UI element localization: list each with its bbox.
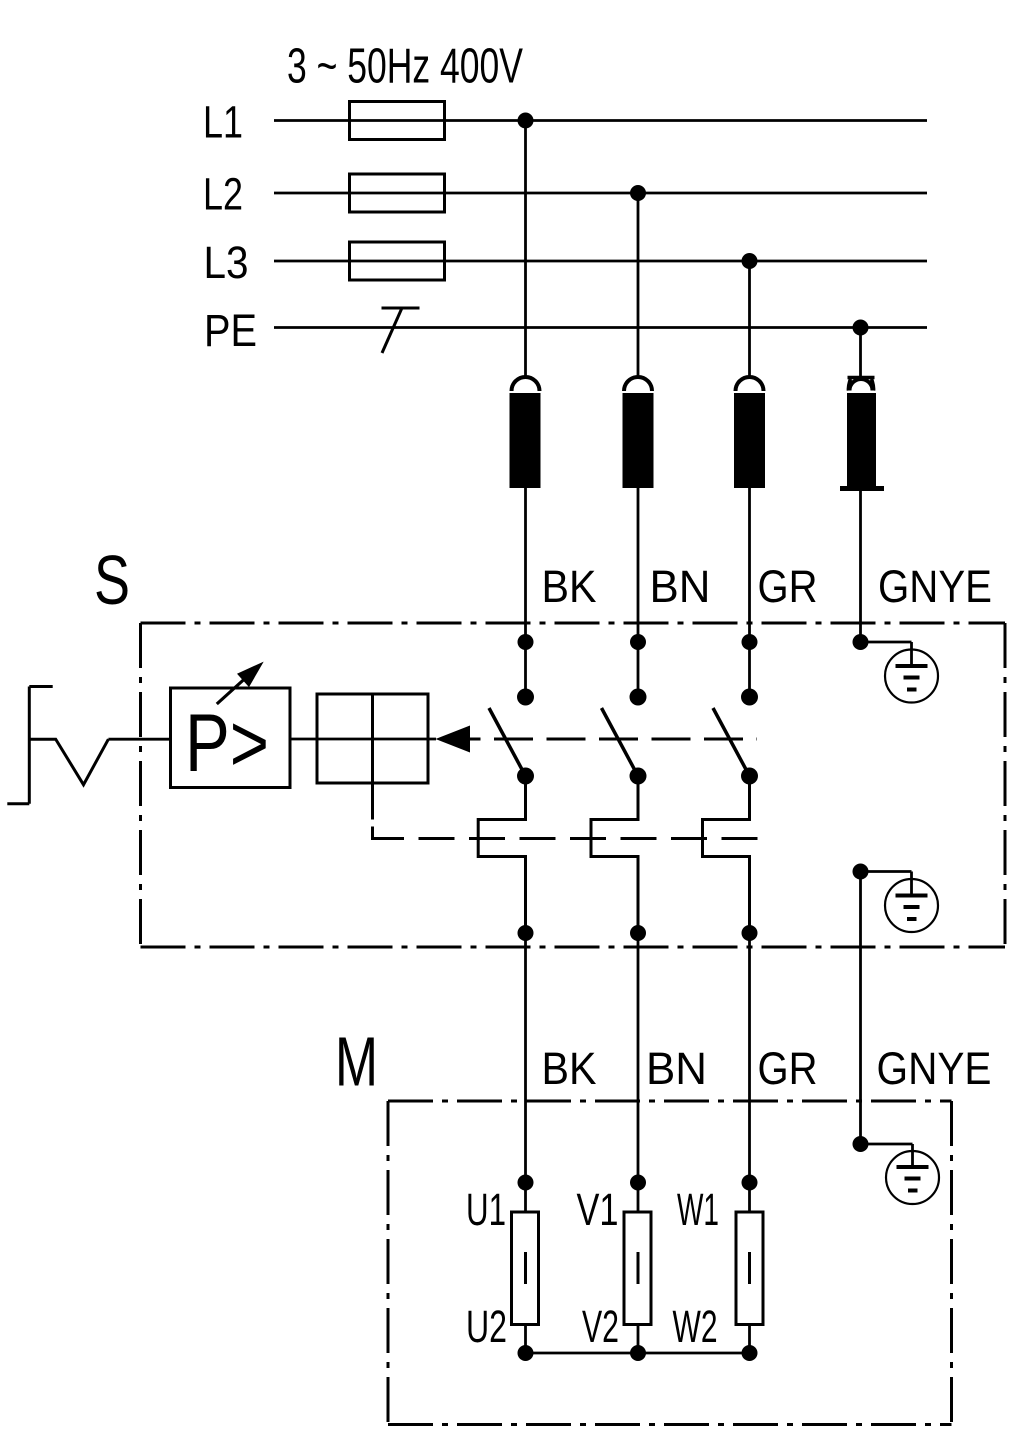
wire sensor to P> [108,738,170,741]
svg-text:3 ~ 50Hz 400V: 3 ~ 50Hz 400V [287,40,523,94]
node BK in [518,634,534,650]
svg-text:GR: GR [758,1043,818,1094]
wire PE [274,326,927,329]
overload element 2 [591,776,638,933]
node star 2 [630,1345,646,1361]
enclosure box M [388,1101,952,1425]
PE earth tap symbol [382,308,420,353]
switch blade 3 [713,708,750,776]
svg-text:BK: BK [542,1043,597,1094]
wire BK to contact [524,642,527,697]
node contact2 bottom [630,768,647,785]
wire drop BK [524,121,527,380]
converter cross box [290,694,436,783]
node star 3 [742,1345,758,1361]
svg-text:L2: L2 [203,169,243,220]
svg-text:GNYE: GNYE [877,1043,992,1094]
wire phase 2 S to M [637,933,640,1183]
overload element 3 [703,776,750,933]
node L1 junction [518,113,534,129]
wire phase 1 S to M [524,933,527,1183]
ground symbol E3 [861,1144,940,1204]
ground symbol E1 [861,642,939,703]
node S out 3 [742,925,758,941]
svg-text:PE: PE [204,305,257,356]
node contact3 top [741,689,758,706]
node contact1 bottom [517,768,534,785]
node S out 1 [518,925,534,941]
overload element 1 [478,776,525,933]
node star 1 [518,1345,534,1361]
trip arrow [436,726,471,753]
wire V2 [637,1325,640,1354]
wire GNYE S to M [859,872,862,1145]
wire drop BN [637,193,640,379]
node contact3 bottom [741,768,758,785]
cable core GR [734,377,765,642]
actuation dashed link (contacts) [470,738,481,741]
svg-text:V1: V1 [577,1184,619,1235]
svg-text:S: S [94,541,130,619]
node GNYE link [853,864,869,880]
node GR in [742,634,758,650]
node PE junction [853,320,869,336]
node S out 2 [630,925,646,941]
svg-text:V2: V2 [582,1301,619,1352]
svg-text:M: M [335,1023,378,1101]
svg-text:GR: GR [758,561,818,612]
mechanical link from converter [373,783,759,839]
wire BN to contact [637,642,640,697]
node contact1 top [517,689,534,706]
node GNYE in [853,634,869,650]
node M in 2 [630,1175,646,1191]
svg-text:BN: BN [646,1043,707,1094]
wire W1 [748,1183,751,1213]
switch blade 1 [489,708,526,776]
svg-text:L1: L1 [203,97,243,148]
enclosure box S [141,623,1006,947]
capillary sensor bulb [7,687,108,804]
winding U [512,1212,539,1325]
wire L1 [274,119,927,122]
wire GR to contact [748,642,751,697]
wire U1 [524,1183,527,1213]
wire drop GNYE [859,328,862,379]
node BN in [630,634,646,650]
wire L3 [274,260,927,263]
node L3 junction [742,253,758,269]
ground symbol E2 [861,872,939,933]
wire phase 3 S to M [748,933,751,1183]
svg-text:BK: BK [542,561,597,612]
winding V [624,1212,651,1325]
fuse F2 [350,174,445,212]
svg-text:BN: BN [650,561,711,612]
switch blade 2 [602,708,639,776]
wire drop GR [748,261,751,379]
svg-text:P>: P> [185,698,269,789]
cable core BK [510,377,541,642]
svg-text:GNYE: GNYE [878,561,992,612]
node M in 3 [742,1175,758,1191]
adjustment arrow on P> [217,662,264,704]
svg-text:W1: W1 [677,1184,719,1235]
svg-text:L3: L3 [204,237,249,288]
svg-text:W2: W2 [673,1301,718,1352]
cable core GNYE with screen bar [840,378,884,643]
winding W [736,1212,763,1325]
fuse F3 [350,242,445,280]
wire L2 [274,192,927,195]
fuse F1 [350,102,445,140]
star point wire [526,1352,750,1355]
pressure switch P> box [171,688,291,789]
cable core BN [623,377,654,642]
svg-text:U2: U2 [466,1301,507,1352]
svg-text:U1: U1 [466,1184,506,1235]
wire U2 [524,1325,527,1354]
node contact2 top [630,689,647,706]
node L2 junction [630,185,646,201]
node GNYE M in [853,1136,869,1152]
wire V1 [637,1183,640,1213]
node M in 1 [518,1175,534,1191]
wire W2 [748,1325,751,1354]
